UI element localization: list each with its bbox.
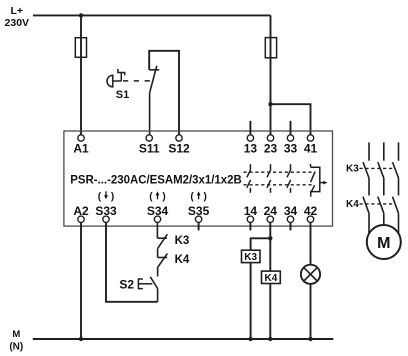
terminal S33 <box>103 216 109 222</box>
terminal 24 <box>267 216 273 222</box>
contactor K3 power contacts <box>360 142 399 178</box>
terminal S35 <box>195 216 201 222</box>
switch S2 NO contact <box>150 277 157 302</box>
wire 24 to N bus <box>269 223 271 340</box>
node A2 on N bus <box>79 337 83 341</box>
wire stub terminal 33 <box>290 121 292 135</box>
fuse F2 <box>265 38 276 58</box>
svg-text:K4: K4 <box>265 273 278 284</box>
terminal A1 <box>78 135 84 141</box>
svg-text:L+: L+ <box>11 5 24 17</box>
node junction 24 branch <box>268 236 272 240</box>
label arrow up S35 <box>190 191 207 202</box>
terminal 14 <box>247 216 253 222</box>
svg-text:(N): (N) <box>9 341 23 352</box>
internal NO contact 33-34 <box>287 164 291 193</box>
contact K4 NC in reset chain <box>158 253 168 276</box>
wire lamp to N bus <box>310 284 312 339</box>
node junction to 41 branch <box>268 102 272 106</box>
node lamp on N bus <box>308 337 312 341</box>
node K4 on N bus <box>268 337 272 341</box>
wire coil K3 to N bus <box>250 263 252 339</box>
label arrow down S33 <box>98 191 115 202</box>
wire A2 to N bus <box>80 223 82 340</box>
svg-text:S11: S11 <box>139 142 160 156</box>
svg-text:): ) <box>204 191 207 202</box>
svg-text:): ) <box>111 191 114 202</box>
internal NO contact 13-14 <box>247 164 251 193</box>
svg-text:13: 13 <box>244 142 258 156</box>
svg-text:A1: A1 <box>73 142 89 156</box>
svg-text:41: 41 <box>304 142 318 156</box>
wire L+ top bus <box>33 14 271 16</box>
svg-text:S2: S2 <box>119 277 134 291</box>
internal linkage dashed line lower <box>244 184 314 186</box>
terminal 33 <box>287 135 293 141</box>
terminal 13 <box>247 135 253 141</box>
svg-text:(: ( <box>149 191 153 202</box>
terminal 42 <box>307 216 313 222</box>
lamp H1 <box>301 265 320 284</box>
contact K3 NC in reset chain <box>157 234 167 257</box>
wire S33 reset loop <box>106 223 158 302</box>
switch S1 NC contact <box>149 66 159 135</box>
svg-text:M: M <box>377 235 390 252</box>
wire fuse F2 drop to 23 <box>270 15 272 134</box>
S2 pushbutton actuator <box>138 279 152 289</box>
svg-text:S12: S12 <box>168 142 190 156</box>
svg-text:K3: K3 <box>244 252 257 263</box>
svg-text:23: 23 <box>264 142 278 156</box>
fuse F1 <box>75 38 86 58</box>
wire branch to 41 <box>271 104 311 135</box>
internal NC contact 41-42 <box>311 164 328 197</box>
wire 42 to lamp <box>310 223 312 265</box>
wire stub 34 <box>290 223 292 231</box>
svg-text:(: ( <box>190 191 194 202</box>
label arrow up S34 <box>149 191 166 202</box>
fuse F1 inner wire <box>80 38 82 58</box>
svg-text:K4: K4 <box>175 254 190 266</box>
wire stub 14 <box>249 223 251 231</box>
net M (N) label <box>9 329 23 352</box>
net L+ 230V label <box>5 5 30 29</box>
wires K4 to motor <box>369 213 399 233</box>
svg-text:K3: K3 <box>346 164 359 175</box>
coil K3 <box>242 250 261 262</box>
terminal 41 <box>307 135 313 141</box>
svg-text:230V: 230V <box>5 17 30 29</box>
terminal 34 <box>287 216 293 222</box>
terminal S34 <box>154 216 160 222</box>
wire stub S35 <box>198 223 200 231</box>
S1 emergency stop actuator mushroom head <box>107 69 151 87</box>
contactor K4 power contacts <box>360 197 399 214</box>
coil K4 <box>262 271 281 283</box>
terminal S11 <box>146 135 152 141</box>
svg-text:S1: S1 <box>116 89 129 101</box>
terminal S12 <box>176 135 182 141</box>
svg-text:33: 33 <box>284 142 298 156</box>
wire stub terminal 13 <box>249 121 251 135</box>
node K3 on N bus <box>248 337 252 341</box>
svg-text:(: ( <box>98 191 102 202</box>
svg-text:M: M <box>12 329 20 340</box>
internal linkage dashed line upper <box>244 171 314 173</box>
node junction A1 on L+ bus <box>79 13 83 17</box>
wire branch to coil K3 <box>251 238 271 250</box>
wire S11-S12 loop over S1 <box>149 51 179 135</box>
wire A1 drop <box>80 15 82 134</box>
svg-text:K4: K4 <box>346 199 359 210</box>
svg-text:K3: K3 <box>175 235 190 247</box>
wire S34 down to K3 contact <box>156 223 158 239</box>
wire N bottom bus <box>33 338 334 340</box>
fuse F2 inner wire <box>270 38 272 58</box>
relay box U1 <box>64 131 333 226</box>
motor M1 <box>367 225 401 259</box>
internal NO contact 23-24 <box>267 164 271 193</box>
svg-text:): ) <box>162 191 165 202</box>
svg-text:PSR-...-230AC/ESAM2/3x1/1x2B: PSR-...-230AC/ESAM2/3x1/1x2B <box>70 174 241 186</box>
terminal A2 <box>78 216 84 222</box>
wires K3 to K4 poles <box>369 178 399 196</box>
terminal 23 <box>267 135 273 141</box>
